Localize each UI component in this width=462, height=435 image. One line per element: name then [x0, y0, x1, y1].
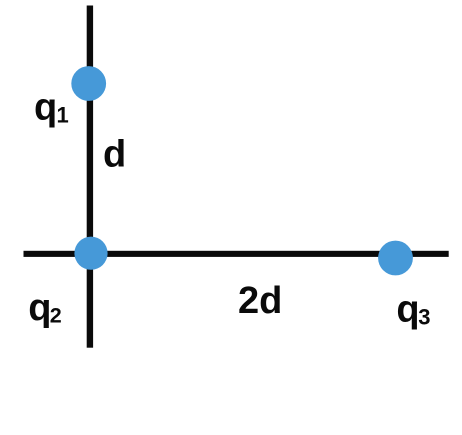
svg-text:3: 3 [418, 304, 430, 329]
vertical axis wire [87, 6, 93, 348]
svg-text:q: q [34, 87, 57, 129]
label q2 [28, 287, 62, 329]
label q1 [34, 87, 69, 129]
svg-text:q: q [396, 289, 419, 331]
label q3 [396, 289, 430, 331]
horizontal axis wire [24, 251, 449, 257]
svg-text:2: 2 [50, 303, 62, 327]
charge dot q2 (origin) [74, 237, 107, 270]
svg-text:2d: 2d [238, 280, 282, 322]
svg-text:q: q [28, 287, 51, 329]
svg-text:1: 1 [57, 103, 69, 128]
svg-text:d: d [103, 134, 126, 176]
charge dot q3 [378, 241, 413, 276]
charge dot q1 [71, 66, 106, 101]
